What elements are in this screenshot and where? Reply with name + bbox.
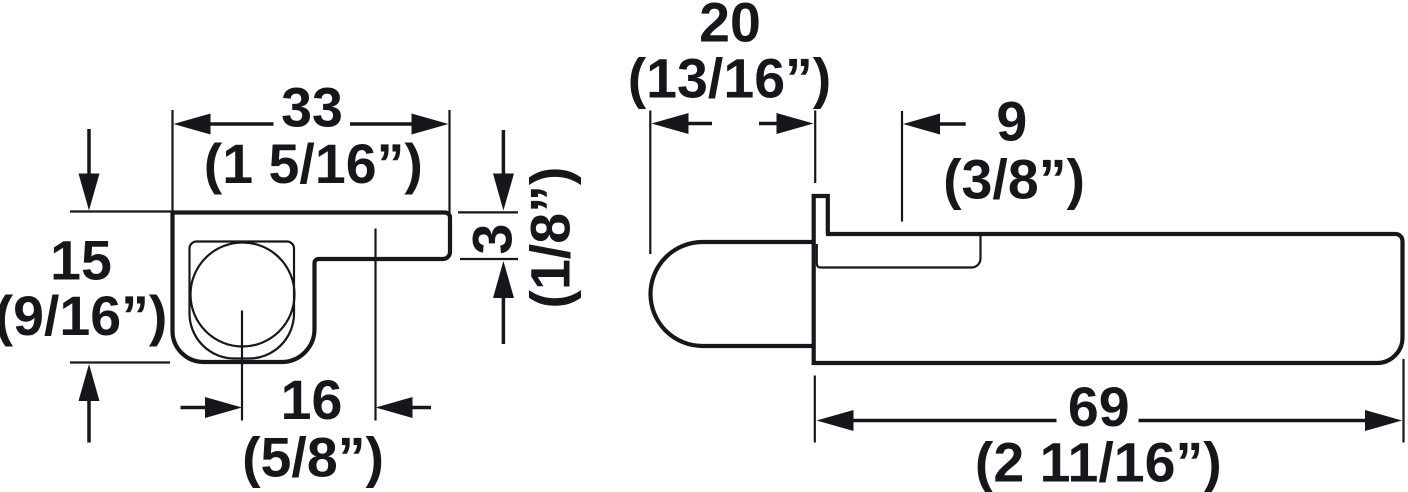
svg-text:(1/8”): (1/8”) [519, 167, 581, 309]
dimension 69: extension lines [814, 376, 816, 443]
svg-text:20: 20 [699, 0, 761, 54]
svg-text:15: 15 [50, 230, 112, 292]
dimension 69: arrows and line [817, 410, 854, 431]
svg-text:(13/16”): (13/16”) [628, 48, 832, 110]
svg-text:16: 16 [281, 369, 343, 431]
svg-text:9: 9 [996, 91, 1027, 153]
left view: inner channel wall [190, 242, 295, 359]
right view: pin bullet [651, 242, 814, 346]
dimension 3: arrows [502, 130, 506, 175]
right view: arm body outline [814, 196, 1403, 363]
svg-text:33: 33 [281, 77, 343, 139]
dimension 3: extension lines [458, 211, 518, 213]
dimension 15: arrows [87, 129, 91, 175]
dimension 15: extension lines [70, 210, 171, 212]
right view: internal recess contour [817, 236, 981, 268]
left view: pin centerline [241, 311, 243, 421]
dimension 9: extension line and arrow [901, 111, 903, 222]
svg-text:69: 69 [1068, 376, 1130, 438]
dimension 16: arrows [181, 406, 207, 410]
svg-text:(1 5/16”): (1 5/16”) [204, 133, 423, 195]
left view: pin circle [191, 243, 295, 347]
svg-text:3: 3 [462, 224, 524, 255]
dimension 33: extension lines [171, 110, 173, 213]
extension line for 16 (right) [374, 229, 376, 421]
svg-text:(9/16”): (9/16”) [0, 285, 167, 347]
svg-text:(2 11/16”): (2 11/16”) [975, 432, 1222, 492]
left view: hinge profile outline [173, 213, 451, 363]
dimension 20: extension lines [649, 111, 651, 255]
dimension 33: arrows and line [174, 114, 211, 135]
svg-text:(3/8”): (3/8”) [943, 149, 1085, 211]
dimension 20: arrows [652, 113, 689, 134]
svg-text:(5/8”): (5/8”) [242, 426, 384, 488]
